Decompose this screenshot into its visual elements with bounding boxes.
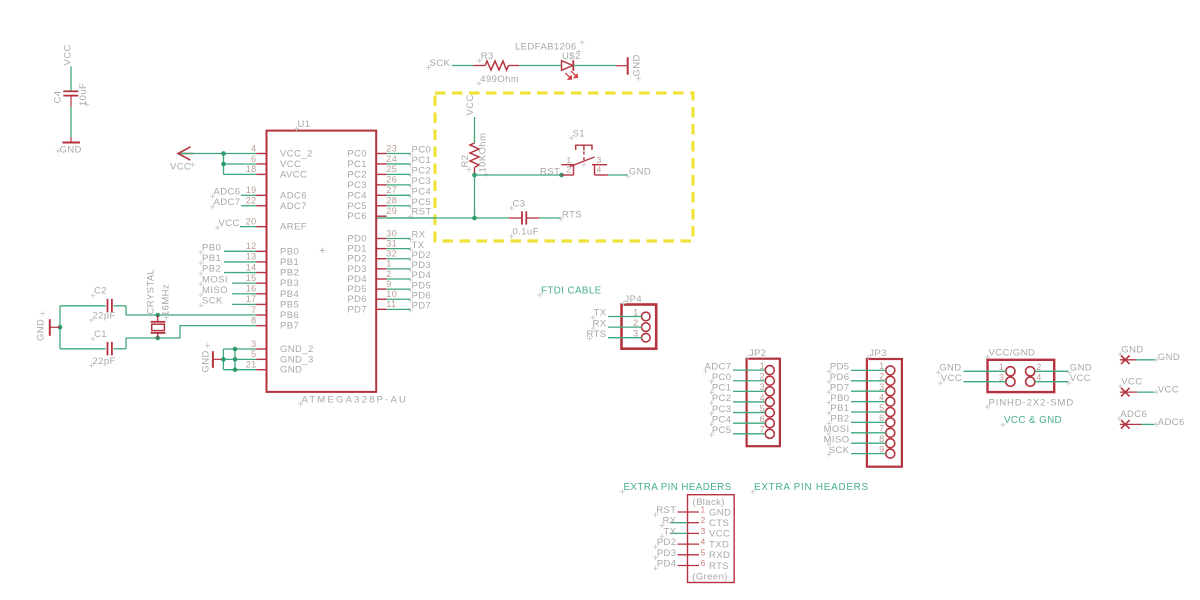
U1 left pins PB0-PB7 (12-17,7,8) bbox=[246, 241, 299, 332]
svg-text:FTDI CABLE: FTDI CABLE bbox=[541, 285, 602, 296]
wire VCC arrow to pins 4/6/18 bbox=[180, 154, 256, 175]
wire C4 to GND bbox=[70, 107, 72, 137]
svg-text:RTS: RTS bbox=[562, 209, 582, 220]
net label ADC6 (U1) bbox=[210, 187, 240, 199]
svg-text:R2: R2 bbox=[460, 155, 471, 168]
net label SCK (LED row) bbox=[426, 58, 450, 70]
net flag VCC (right edge) bbox=[1120, 388, 1159, 397]
GND label (LED row) bbox=[632, 54, 643, 81]
svg-text:PB7: PB7 bbox=[280, 321, 299, 332]
svg-text:U$2: U$2 bbox=[562, 51, 581, 62]
svg-text:GND: GND bbox=[1158, 352, 1180, 363]
svg-text:17: 17 bbox=[246, 294, 257, 304]
connector JP3 body bbox=[867, 359, 902, 467]
VCC flag labels bbox=[1118, 377, 1179, 396]
svg-text:PC1: PC1 bbox=[347, 159, 367, 170]
label VCC/GND (2x2 header) bbox=[985, 347, 1035, 359]
R3 designator bbox=[477, 51, 494, 63]
R3 value 499Ohm bbox=[477, 74, 520, 86]
svg-text:18: 18 bbox=[246, 164, 257, 174]
GND flag labels bbox=[1118, 344, 1180, 363]
junction at switch pin 2 bbox=[559, 173, 564, 178]
svg-text:5: 5 bbox=[879, 403, 884, 413]
C4 value 10uF bbox=[78, 83, 89, 107]
svg-text:10: 10 bbox=[386, 289, 397, 299]
svg-text:PC1: PC1 bbox=[412, 155, 432, 166]
svg-text:JP4: JP4 bbox=[625, 294, 643, 305]
net labels RX TX PD2-PD7 (U1 right) bbox=[387, 230, 432, 313]
svg-text:PB4: PB4 bbox=[280, 289, 299, 300]
svg-text:VCC: VCC bbox=[63, 44, 74, 65]
svg-text:VCC: VCC bbox=[1121, 377, 1142, 388]
svg-text:2: 2 bbox=[760, 372, 765, 382]
net labels at JP2 bbox=[703, 361, 731, 437]
JP1 pin lines bbox=[670, 512, 699, 566]
svg-text:PB2: PB2 bbox=[280, 268, 299, 279]
wires GND to pins 3/5/21 bbox=[223, 349, 256, 370]
svg-text:PC0: PC0 bbox=[412, 145, 432, 156]
junction GND/C1/C2 bbox=[58, 325, 63, 330]
svg-text:MISO: MISO bbox=[202, 285, 228, 296]
wires to JP3 bbox=[851, 370, 886, 453]
svg-text:6: 6 bbox=[879, 413, 884, 423]
svg-text:PB2: PB2 bbox=[202, 264, 221, 275]
svg-text:2: 2 bbox=[879, 372, 884, 382]
svg-text:VCC: VCC bbox=[709, 529, 730, 540]
svg-text:PC4: PC4 bbox=[347, 190, 367, 201]
S1 pin numbers bbox=[566, 155, 601, 175]
svg-text:JP3: JP3 bbox=[869, 348, 887, 359]
svg-text:SCK: SCK bbox=[829, 445, 850, 456]
wire RST row to C3 bbox=[376, 217, 509, 219]
capacitor C1 bbox=[60, 342, 126, 356]
ground symbol GND (crystal) bbox=[50, 319, 60, 336]
GND label (crystal) bbox=[36, 311, 47, 341]
svg-text:EXTRA PIN HEADERS: EXTRA PIN HEADERS bbox=[754, 482, 869, 493]
svg-text:GND_2: GND_2 bbox=[280, 344, 314, 355]
svg-text:PB2: PB2 bbox=[830, 414, 849, 425]
svg-text:5: 5 bbox=[760, 403, 765, 413]
svg-text:ADC6: ADC6 bbox=[214, 187, 241, 198]
svg-text:ADC6: ADC6 bbox=[1120, 409, 1147, 420]
svg-text:VCC: VCC bbox=[1070, 373, 1091, 384]
wire C1/C2 left vertical bbox=[59, 306, 61, 349]
svg-text:9: 9 bbox=[879, 444, 884, 454]
svg-text:+: + bbox=[319, 245, 326, 257]
ground symbol GND (LED row) bbox=[616, 57, 628, 74]
svg-text:PC5: PC5 bbox=[347, 201, 367, 212]
svg-text:RST: RST bbox=[656, 505, 676, 516]
svg-text:JP2: JP2 bbox=[749, 348, 767, 359]
capacitor C4 bbox=[63, 91, 78, 106]
svg-text:1: 1 bbox=[760, 361, 765, 371]
svg-text:1: 1 bbox=[633, 307, 638, 317]
U1 right pins PD0-PD7 (30,31,32,1,2,9,10,11) bbox=[347, 228, 397, 315]
net labels GND/VCC left of 2x2 bbox=[936, 363, 962, 386]
net label VCC (AREF) bbox=[215, 218, 240, 230]
LED part name LEDFAB1206 bbox=[515, 40, 584, 52]
crystal Q1 16MHz bbox=[151, 315, 166, 338]
svg-text:5: 5 bbox=[701, 547, 706, 557]
svg-text:3: 3 bbox=[760, 382, 765, 392]
svg-text:C3: C3 bbox=[513, 198, 526, 209]
svg-text:PC3: PC3 bbox=[347, 180, 367, 191]
svg-text:C1: C1 bbox=[94, 329, 107, 340]
svg-text:3: 3 bbox=[879, 382, 884, 392]
svg-text:VCC: VCC bbox=[219, 218, 240, 229]
U1 pin AREF (20) bbox=[256, 226, 266, 228]
svg-text:2: 2 bbox=[701, 515, 706, 525]
svg-text:PC2: PC2 bbox=[347, 169, 367, 180]
net label RTS bbox=[559, 209, 582, 221]
svg-text:3: 3 bbox=[999, 372, 1004, 382]
wire SCK to R3 bbox=[452, 65, 473, 67]
svg-text:6: 6 bbox=[701, 558, 706, 568]
svg-text:2: 2 bbox=[386, 269, 391, 279]
svg-text:RTS: RTS bbox=[709, 561, 729, 572]
svg-text:ADC7: ADC7 bbox=[214, 197, 241, 208]
U1 right pins PC0-PC6 (23-29) bbox=[347, 143, 397, 222]
power symbol VCC arrow (U1 supply) bbox=[178, 147, 193, 160]
svg-text:PB3: PB3 bbox=[280, 278, 299, 289]
svg-text:PC3: PC3 bbox=[412, 176, 432, 187]
JP5 pin circles bbox=[1006, 367, 1035, 387]
junction crystal/XTAL1 bbox=[155, 313, 160, 318]
C2 value 22pF bbox=[89, 310, 116, 322]
svg-text:PD7: PD7 bbox=[412, 301, 432, 312]
svg-text:S1: S1 bbox=[573, 128, 585, 139]
svg-text:6: 6 bbox=[760, 414, 765, 424]
GND label (U1 pins) bbox=[201, 343, 212, 372]
svg-text:PB6: PB6 bbox=[280, 310, 299, 321]
wire S1 to GND label bbox=[608, 174, 628, 176]
wire RST net to switch bbox=[475, 174, 562, 176]
svg-text:CTS: CTS bbox=[709, 518, 729, 529]
svg-text:VCC/GND: VCC/GND bbox=[989, 347, 1036, 358]
wire VCC to C4 bbox=[70, 67, 72, 92]
svg-text:PD5: PD5 bbox=[830, 362, 850, 373]
C2 designator bbox=[91, 286, 107, 298]
connector JP1 body (FTDI breakout) bbox=[688, 495, 735, 583]
S1 designator bbox=[569, 128, 585, 140]
svg-text:23: 23 bbox=[386, 143, 397, 153]
junction GND pin3 bbox=[233, 347, 238, 352]
svg-text:R3: R3 bbox=[481, 51, 494, 62]
svg-text:15: 15 bbox=[246, 273, 257, 283]
svg-text:0.1uF: 0.1uF bbox=[513, 227, 539, 238]
svg-text:PC0: PC0 bbox=[347, 149, 367, 160]
JP2 designator bbox=[746, 348, 767, 360]
svg-text:2: 2 bbox=[566, 164, 571, 174]
svg-text:(Green): (Green) bbox=[692, 572, 728, 583]
R2 designator bbox=[460, 155, 471, 172]
svg-text:TX: TX bbox=[664, 526, 677, 537]
svg-text:RXD: RXD bbox=[709, 550, 730, 561]
svg-text:5: 5 bbox=[251, 349, 256, 359]
svg-text:GND: GND bbox=[939, 363, 961, 374]
svg-text:VCC: VCC bbox=[1158, 385, 1179, 396]
IC U1 body bbox=[267, 131, 377, 392]
wires 2x2 header bbox=[964, 371, 1069, 381]
svg-text:2: 2 bbox=[633, 318, 638, 328]
net labels PC0-PC5 (U1 right) bbox=[387, 145, 432, 209]
svg-text:ADC6: ADC6 bbox=[1158, 417, 1185, 428]
svg-text:PC1: PC1 bbox=[712, 383, 732, 394]
svg-text:8: 8 bbox=[879, 434, 884, 444]
svg-text:PD7: PD7 bbox=[347, 304, 367, 315]
info text EXTRA PIN HEADERS (left) bbox=[620, 482, 732, 494]
svg-text:4: 4 bbox=[879, 392, 884, 402]
junction GND stub bbox=[221, 357, 226, 362]
svg-text:PB1: PB1 bbox=[830, 403, 849, 414]
svg-text:RX: RX bbox=[663, 516, 677, 527]
svg-text:SCK: SCK bbox=[430, 58, 451, 69]
svg-text:VCC: VCC bbox=[280, 159, 301, 170]
svg-text:29: 29 bbox=[386, 206, 397, 216]
svg-text:ADC7: ADC7 bbox=[705, 361, 732, 372]
svg-text:11: 11 bbox=[386, 299, 396, 309]
svg-text:3: 3 bbox=[597, 155, 602, 165]
JP4 pin numbers 1-3 bbox=[633, 307, 638, 338]
junction R2/RST wire bbox=[472, 173, 477, 178]
net labels TX RX RTS (FTDI) bbox=[586, 308, 606, 341]
svg-text:GND: GND bbox=[1070, 363, 1092, 374]
net flag GND (right edge) bbox=[1120, 356, 1159, 365]
svg-text:PINHD-2X2-SMD: PINHD-2X2-SMD bbox=[989, 397, 1075, 408]
GND label (C4) bbox=[56, 145, 82, 156]
capacitor C2 bbox=[60, 299, 126, 313]
U1 ground pins GND_2/GND_3/GND (3/5/21) bbox=[246, 339, 314, 376]
wires PB0-SCK to U1 bbox=[224, 251, 256, 304]
svg-text:AVCC: AVCC bbox=[280, 169, 307, 180]
svg-text:PD2: PD2 bbox=[657, 537, 677, 548]
info text VCC & GND bbox=[1001, 415, 1062, 427]
net label GND (S1) bbox=[625, 167, 651, 179]
svg-text:PB1: PB1 bbox=[280, 257, 299, 268]
svg-text:PC4: PC4 bbox=[412, 187, 432, 198]
svg-text:4: 4 bbox=[597, 164, 602, 174]
svg-text:10uF: 10uF bbox=[78, 83, 89, 106]
svg-text:U1: U1 bbox=[298, 119, 311, 130]
svg-text:PD4: PD4 bbox=[657, 559, 677, 570]
svg-text:10KOhm: 10KOhm bbox=[478, 133, 489, 173]
svg-text:12: 12 bbox=[246, 241, 257, 251]
svg-text:32: 32 bbox=[386, 249, 397, 259]
svg-text:PD7: PD7 bbox=[830, 382, 850, 393]
net labels PB0-PB2, MOSI, MISO, SCK bbox=[199, 243, 228, 308]
svg-text:CRYSTAL: CRYSTAL bbox=[146, 269, 157, 315]
capacitor C3 bbox=[509, 211, 539, 224]
junction GND pin5 bbox=[233, 357, 238, 362]
svg-text:1: 1 bbox=[566, 155, 571, 165]
wires to JP2 bbox=[733, 370, 765, 434]
JP3 pin circles bbox=[886, 366, 895, 458]
svg-text:4: 4 bbox=[1036, 372, 1041, 382]
U1 left pins group 1 (VCC_2, VCC, AVCC pins 4/6/18) bbox=[246, 143, 313, 180]
svg-text:4: 4 bbox=[251, 143, 256, 153]
svg-text:GND: GND bbox=[60, 145, 82, 156]
svg-text:24: 24 bbox=[386, 154, 397, 164]
net label ADC7 (U1) bbox=[210, 197, 240, 209]
JP2 pin numbers 1-7 bbox=[760, 361, 765, 435]
svg-text:PB1: PB1 bbox=[202, 253, 221, 264]
C1 value 22pF bbox=[89, 356, 116, 368]
net labels GND/VCC right of 2x2 bbox=[1066, 363, 1092, 386]
svg-text:PC2: PC2 bbox=[712, 393, 732, 404]
C3 designator bbox=[509, 198, 525, 210]
svg-text:1: 1 bbox=[999, 362, 1004, 372]
LED designator U$2 bbox=[562, 49, 581, 62]
svg-text:7: 7 bbox=[251, 305, 256, 315]
svg-text:22pF: 22pF bbox=[93, 356, 116, 367]
svg-text:ATMEGA328P-AU: ATMEGA328P-AU bbox=[302, 395, 409, 406]
svg-text:8: 8 bbox=[251, 315, 256, 325]
highlight box (reset circuit) bbox=[435, 93, 693, 241]
svg-text:2: 2 bbox=[1036, 362, 1041, 372]
wire XTAL2 (pin 8 row) bbox=[126, 326, 256, 349]
svg-text:PC2: PC2 bbox=[412, 166, 432, 177]
net labels left of JP1 bbox=[653, 505, 677, 571]
svg-text:30: 30 bbox=[386, 228, 397, 238]
svg-text:VCC: VCC bbox=[170, 161, 191, 172]
junction GND pin21 bbox=[233, 367, 238, 372]
svg-text:1: 1 bbox=[386, 259, 391, 269]
svg-text:ADC7: ADC7 bbox=[280, 201, 307, 212]
svg-text:1: 1 bbox=[879, 361, 884, 371]
C3 value 0.1uF bbox=[509, 227, 539, 239]
svg-text:C2: C2 bbox=[94, 286, 107, 297]
connector JP4 body bbox=[622, 305, 657, 349]
C1 designator bbox=[91, 329, 107, 341]
svg-text:14: 14 bbox=[246, 262, 257, 272]
JP1 pin function labels bbox=[709, 507, 731, 572]
wire ADC7 bbox=[241, 205, 256, 207]
svg-text:3: 3 bbox=[633, 329, 638, 339]
svg-text:PD3: PD3 bbox=[657, 548, 677, 559]
svg-text:VCC & GND: VCC & GND bbox=[1004, 415, 1062, 426]
svg-text:TX: TX bbox=[594, 308, 607, 319]
svg-text:25: 25 bbox=[386, 164, 397, 174]
svg-text:26: 26 bbox=[386, 175, 397, 185]
svg-text:PC4: PC4 bbox=[712, 414, 732, 425]
svg-text:3: 3 bbox=[251, 339, 256, 349]
svg-text:4: 4 bbox=[701, 537, 706, 547]
svg-text:GND: GND bbox=[36, 319, 47, 341]
JP3 pin numbers 1-9 bbox=[879, 361, 884, 454]
svg-text:GND: GND bbox=[1121, 344, 1143, 355]
LED U$2 bbox=[562, 60, 578, 79]
svg-text:ADC6: ADC6 bbox=[280, 190, 307, 201]
JP3 designator bbox=[866, 348, 887, 360]
info text EXTRA PIN HEADERS (right) bbox=[751, 482, 869, 494]
svg-text:20: 20 bbox=[246, 216, 257, 226]
wire ADC6 bbox=[241, 194, 256, 196]
JP4 designator bbox=[621, 294, 642, 306]
wire C3 to RTS label bbox=[539, 217, 561, 219]
junction VCC/pin6 bbox=[221, 162, 226, 167]
resistor R3 bbox=[473, 61, 519, 70]
svg-text:3: 3 bbox=[701, 526, 706, 536]
svg-text:PD6: PD6 bbox=[830, 372, 850, 383]
ADC6 flag labels bbox=[1117, 409, 1185, 428]
connector JP5 PINHD-2X2 body bbox=[988, 360, 1055, 392]
svg-text:C4: C4 bbox=[53, 91, 64, 104]
junction VCC/pin4 bbox=[221, 151, 226, 156]
svg-text:EXTRA PIN HEADERS: EXTRA PIN HEADERS bbox=[624, 482, 732, 493]
svg-text:31: 31 bbox=[386, 238, 397, 248]
svg-text:499Ohm: 499Ohm bbox=[480, 74, 519, 85]
pushbutton S1 bbox=[562, 145, 609, 175]
part name PINHD-2X2-SMD bbox=[985, 397, 1074, 409]
svg-text:PB0: PB0 bbox=[202, 243, 221, 254]
JP1 pin numbers 1-6 bbox=[701, 505, 706, 569]
svg-text:PB5: PB5 bbox=[280, 299, 299, 310]
U1 designator bbox=[294, 119, 310, 131]
svg-text:GND_3: GND_3 bbox=[280, 354, 314, 365]
JP4 pin circles bbox=[642, 312, 651, 342]
svg-text:AREF: AREF bbox=[280, 222, 307, 233]
connector JP2 body bbox=[747, 359, 780, 447]
U1 part name ATMEGA328P-AU bbox=[298, 395, 408, 407]
wires FTDI TX/RX/RTS bbox=[608, 317, 642, 338]
svg-text:7: 7 bbox=[760, 425, 765, 435]
ground symbol GND (C4) bbox=[63, 137, 81, 143]
junction crystal/XTAL2 bbox=[155, 336, 160, 341]
svg-text:RST: RST bbox=[540, 167, 560, 178]
svg-text:6: 6 bbox=[251, 154, 256, 164]
svg-text:GND: GND bbox=[629, 167, 651, 178]
svg-text:16: 16 bbox=[246, 284, 257, 294]
svg-text:SCK: SCK bbox=[202, 296, 223, 307]
net flag ADC6 (right edge) bbox=[1120, 420, 1159, 429]
wire VCC to R2 bbox=[474, 117, 476, 143]
svg-text:GND: GND bbox=[632, 54, 643, 76]
JP2 pin circles bbox=[765, 366, 774, 439]
svg-text:RST: RST bbox=[412, 207, 432, 218]
svg-text:TXD: TXD bbox=[709, 539, 729, 550]
info text FTDI CABLE bbox=[538, 285, 602, 297]
svg-text:PB0: PB0 bbox=[280, 246, 299, 257]
svg-text:22pF: 22pF bbox=[93, 310, 116, 321]
net label RST (pin 29) and wire to reset circuit bbox=[387, 207, 435, 219]
VCC label (U1 supply) bbox=[170, 161, 195, 172]
svg-text:7: 7 bbox=[879, 424, 884, 434]
svg-text:VCC_2: VCC_2 bbox=[280, 149, 313, 160]
svg-text:MOSI: MOSI bbox=[202, 274, 228, 285]
svg-text:28: 28 bbox=[386, 196, 397, 206]
svg-text:9: 9 bbox=[386, 279, 391, 289]
wire VCC to AREF bbox=[240, 226, 256, 228]
wire R2 junction down to C3 row bbox=[474, 175, 476, 218]
R2 value 10KOhm bbox=[478, 133, 489, 177]
svg-text:4: 4 bbox=[760, 393, 765, 403]
crystal value 16MHz bbox=[160, 284, 171, 320]
svg-text:VCC: VCC bbox=[941, 373, 962, 384]
U1 left pins ADC6/ADC7 (19/22) bbox=[246, 185, 307, 212]
net labels at JP3 bbox=[824, 362, 850, 457]
svg-text:PB0: PB0 bbox=[830, 393, 849, 404]
svg-text:PC6: PC6 bbox=[347, 211, 367, 222]
JP5 pin numbers 1-4 bbox=[999, 362, 1042, 383]
svg-text:21: 21 bbox=[246, 360, 257, 370]
svg-text:27: 27 bbox=[386, 185, 397, 195]
svg-text:PC5: PC5 bbox=[712, 425, 732, 436]
svg-text:19: 19 bbox=[246, 185, 257, 195]
junction C3 row bbox=[472, 216, 477, 221]
wire R3 to LED bbox=[519, 65, 561, 67]
svg-text:16MHz: 16MHz bbox=[160, 284, 171, 316]
svg-text:22: 22 bbox=[246, 196, 257, 206]
